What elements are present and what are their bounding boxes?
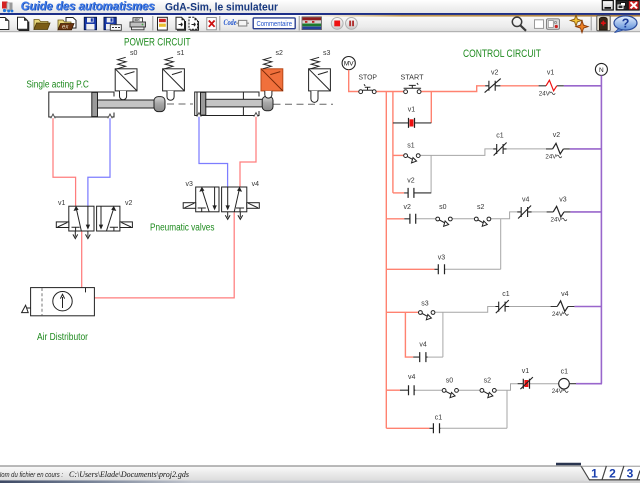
svg-text:v1: v1 xyxy=(408,106,416,113)
svg-text:v2: v2 xyxy=(125,200,133,207)
svg-text:v1: v1 xyxy=(522,368,530,375)
svg-text:v3: v3 xyxy=(559,196,567,203)
svg-text:24V: 24V xyxy=(539,90,551,97)
svg-text:CONTROL CIRCUIT: CONTROL CIRCUIT xyxy=(463,48,541,60)
svg-text:s2: s2 xyxy=(484,378,492,385)
svg-text:?: ? xyxy=(622,17,630,31)
svg-text:v4: v4 xyxy=(419,342,427,349)
svg-text:s1: s1 xyxy=(407,142,415,149)
svg-text:Code: Code xyxy=(224,17,237,27)
svg-text:s0: s0 xyxy=(439,204,447,211)
svg-text:v3: v3 xyxy=(438,255,446,262)
svg-text:s3: s3 xyxy=(421,300,429,307)
svg-text:Air Distributor: Air Distributor xyxy=(37,332,89,343)
svg-text:v4: v4 xyxy=(252,181,260,188)
svg-text:abc: abc xyxy=(134,18,140,22)
svg-text:v4: v4 xyxy=(561,291,569,298)
svg-text:s2: s2 xyxy=(276,50,284,57)
svg-text:ex: ex xyxy=(62,25,69,31)
svg-text:v4: v4 xyxy=(522,196,530,203)
svg-text:24V: 24V xyxy=(551,216,563,223)
svg-text:C:\Users\Elade\Documents\proj2: C:\Users\Elade\Documents\proj2.gds xyxy=(69,469,190,479)
svg-text:MV: MV xyxy=(344,61,354,68)
svg-text:s1: s1 xyxy=(177,50,185,57)
svg-text:v3: v3 xyxy=(186,181,194,188)
svg-text:s0: s0 xyxy=(446,378,454,385)
svg-text:c1: c1 xyxy=(496,133,504,140)
svg-text:s0: s0 xyxy=(130,50,138,57)
svg-text:Single acting P.C: Single acting P.C xyxy=(26,80,89,91)
svg-text:v2: v2 xyxy=(403,204,411,211)
svg-text:Guide des automatismes: Guide des automatismes xyxy=(21,0,155,13)
svg-text:v1: v1 xyxy=(547,69,555,76)
svg-text:START: START xyxy=(401,73,424,82)
svg-text:STOP: STOP xyxy=(359,73,378,82)
svg-text:s2: s2 xyxy=(477,204,485,211)
svg-text:24V: 24V xyxy=(552,311,564,318)
svg-text:3: 3 xyxy=(627,467,634,481)
svg-text:Commentaire: Commentaire xyxy=(257,19,293,28)
svg-text:24V: 24V xyxy=(552,388,564,395)
svg-text:24V: 24V xyxy=(545,153,557,160)
svg-text:1: 1 xyxy=(591,467,598,481)
svg-text:POWER CIRCUIT: POWER CIRCUIT xyxy=(124,37,191,49)
svg-text:Pneumatic valves: Pneumatic valves xyxy=(150,223,215,234)
svg-text:v2: v2 xyxy=(553,132,561,139)
svg-text:v1: v1 xyxy=(58,200,66,207)
svg-text:c1: c1 xyxy=(502,291,510,298)
svg-text:N: N xyxy=(599,67,604,74)
svg-text:v4: v4 xyxy=(408,374,416,381)
svg-text:2: 2 xyxy=(609,467,616,481)
svg-text:c1: c1 xyxy=(435,415,443,422)
svg-text:GdA-Sim, le simulateur: GdA-Sim, le simulateur xyxy=(165,1,279,13)
svg-text:Nom du fichier en cours :: Nom du fichier en cours : xyxy=(0,470,63,479)
svg-text:c1: c1 xyxy=(561,369,569,376)
svg-text:v2: v2 xyxy=(491,69,499,76)
svg-text:s3: s3 xyxy=(323,50,331,57)
svg-text:v2: v2 xyxy=(407,178,415,185)
